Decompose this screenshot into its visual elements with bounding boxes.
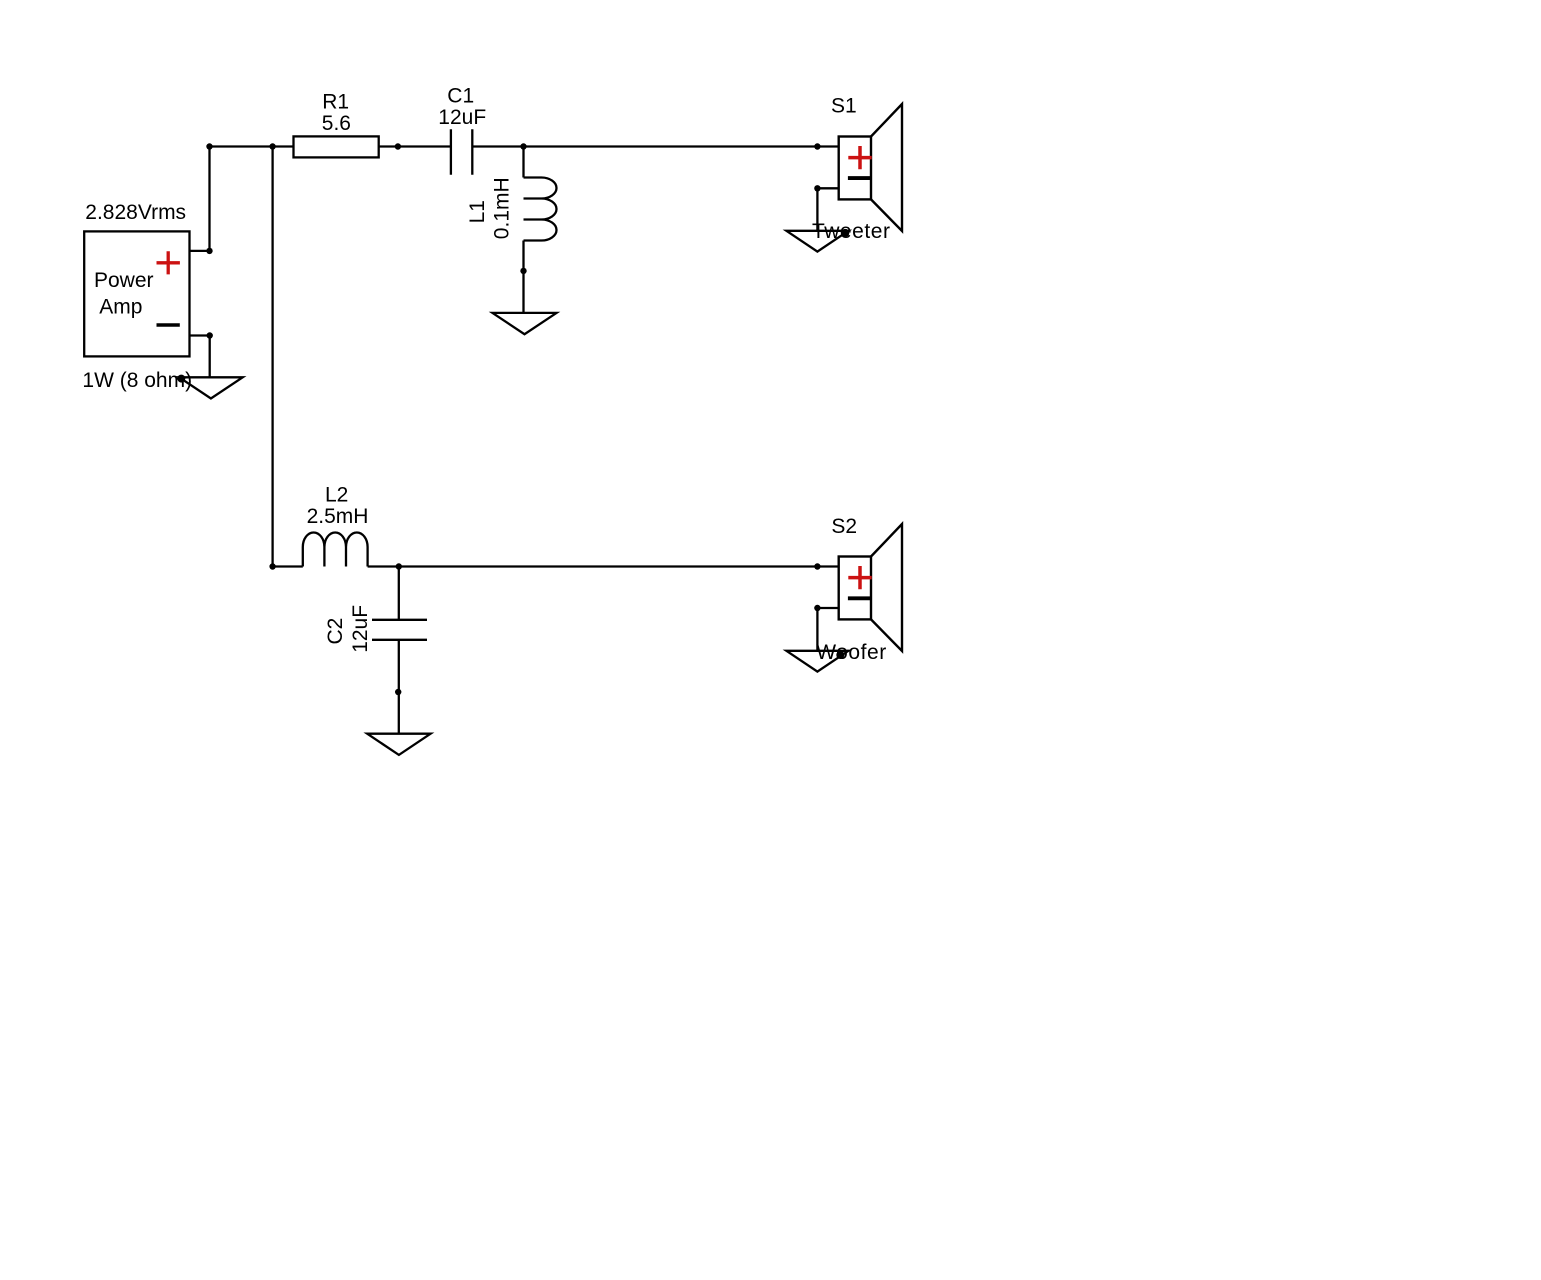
node dot top rail left bbox=[206, 143, 212, 149]
ground symbol at power amp bbox=[179, 377, 243, 398]
S1 plus mark bbox=[848, 146, 871, 169]
junction blob on power amp ground bbox=[177, 375, 185, 383]
S2 plus mark bbox=[848, 566, 871, 589]
node dot S2 minus pin bbox=[814, 605, 820, 611]
wire S1 minus to ground bbox=[816, 188, 818, 231]
junction blob on S1 ground bbox=[841, 229, 849, 237]
node dot branch to woofer bbox=[269, 143, 275, 149]
node dot at L1 top bbox=[520, 143, 526, 149]
voltage source V1 Power Amp box bbox=[84, 231, 189, 356]
wire S2 minus pin bbox=[817, 607, 838, 609]
ground symbol at S1 bbox=[786, 231, 848, 252]
wire L2 to speaker S2 bbox=[368, 565, 839, 567]
wire R1 to C1 bbox=[379, 145, 451, 147]
svg-text:Woofer: Woofer bbox=[816, 641, 887, 664]
svg-text:5.6: 5.6 bbox=[322, 112, 351, 135]
capacitor C2 plates bbox=[372, 620, 427, 640]
wire branch down to L2 bbox=[271, 147, 273, 567]
node dot S1 minus pin bbox=[814, 185, 820, 191]
svg-text:12uF: 12uF bbox=[349, 605, 372, 653]
node dot between R1 and C1 bbox=[395, 143, 401, 149]
ground symbol at S2 bbox=[786, 651, 848, 672]
junction blob on S2 ground bbox=[836, 651, 844, 659]
node dot at L2 input bbox=[269, 563, 275, 569]
svg-text:12uF: 12uF bbox=[438, 106, 486, 129]
svg-text:R1: R1 bbox=[322, 90, 349, 113]
V1 plus polarity mark bbox=[157, 251, 180, 274]
speaker S2 cone bbox=[871, 524, 902, 651]
V1 minus polarity mark bbox=[157, 323, 180, 327]
wire to L2 bbox=[273, 565, 303, 567]
svg-text:L1: L1 bbox=[466, 200, 489, 223]
wire C1 to speaker S1 bbox=[472, 145, 838, 147]
svg-text:Tweeter: Tweeter bbox=[812, 220, 891, 243]
node dot at C2 top bbox=[396, 563, 402, 569]
svg-text:S1: S1 bbox=[831, 95, 857, 118]
wire from rail down to L1 bbox=[522, 147, 524, 178]
svg-text:L2: L2 bbox=[325, 483, 348, 506]
inductor L1 bbox=[524, 178, 557, 241]
inductor L2 bbox=[303, 533, 368, 567]
S1 minus mark bbox=[848, 176, 872, 180]
svg-text:Amp: Amp bbox=[99, 296, 142, 319]
svg-text:2.5mH: 2.5mH bbox=[307, 505, 369, 528]
speaker S2 body rect bbox=[839, 557, 871, 620]
wire S2 minus to ground bbox=[816, 608, 818, 651]
wire top rail from node to R1 bbox=[210, 145, 294, 147]
speaker S1 cone bbox=[871, 104, 902, 231]
wire S1 minus pin bbox=[817, 187, 838, 189]
node dot V1 plus pin bbox=[206, 248, 212, 254]
node dot V1 minus pin bbox=[207, 332, 213, 338]
ground symbol below C2 bbox=[367, 734, 430, 755]
wire V1 minus pin down to ground bbox=[209, 336, 211, 378]
capacitor C1 plates bbox=[451, 129, 472, 175]
node dot at S2 plus pin bbox=[814, 563, 820, 569]
speaker S1 body rect bbox=[839, 137, 871, 200]
S2 minus mark bbox=[848, 596, 872, 600]
svg-text:Power: Power bbox=[94, 269, 154, 292]
node dot below C2 bbox=[395, 689, 401, 695]
svg-text:C2: C2 bbox=[324, 618, 347, 645]
svg-text:0.1mH: 0.1mH bbox=[490, 177, 513, 239]
ground symbol below L1 bbox=[493, 313, 557, 334]
wire down to C2 bbox=[398, 567, 400, 620]
svg-text:1W (8 ohm): 1W (8 ohm) bbox=[82, 369, 192, 392]
wire V1 plus pin bbox=[190, 250, 210, 252]
svg-text:2.828Vrms: 2.828Vrms bbox=[85, 201, 186, 224]
wire V1 plus pin up to top rail bbox=[208, 147, 210, 251]
svg-text:C1: C1 bbox=[447, 85, 474, 108]
node dot below L1 bbox=[520, 268, 526, 274]
wire C2 bottom to ground bbox=[398, 641, 400, 734]
svg-text:S2: S2 bbox=[831, 515, 857, 538]
resistor R1 body bbox=[294, 136, 379, 157]
node dot at S1 plus pin bbox=[814, 143, 820, 149]
wire V1 minus pin bbox=[190, 334, 210, 336]
wire L1 bottom to ground bbox=[522, 241, 524, 313]
